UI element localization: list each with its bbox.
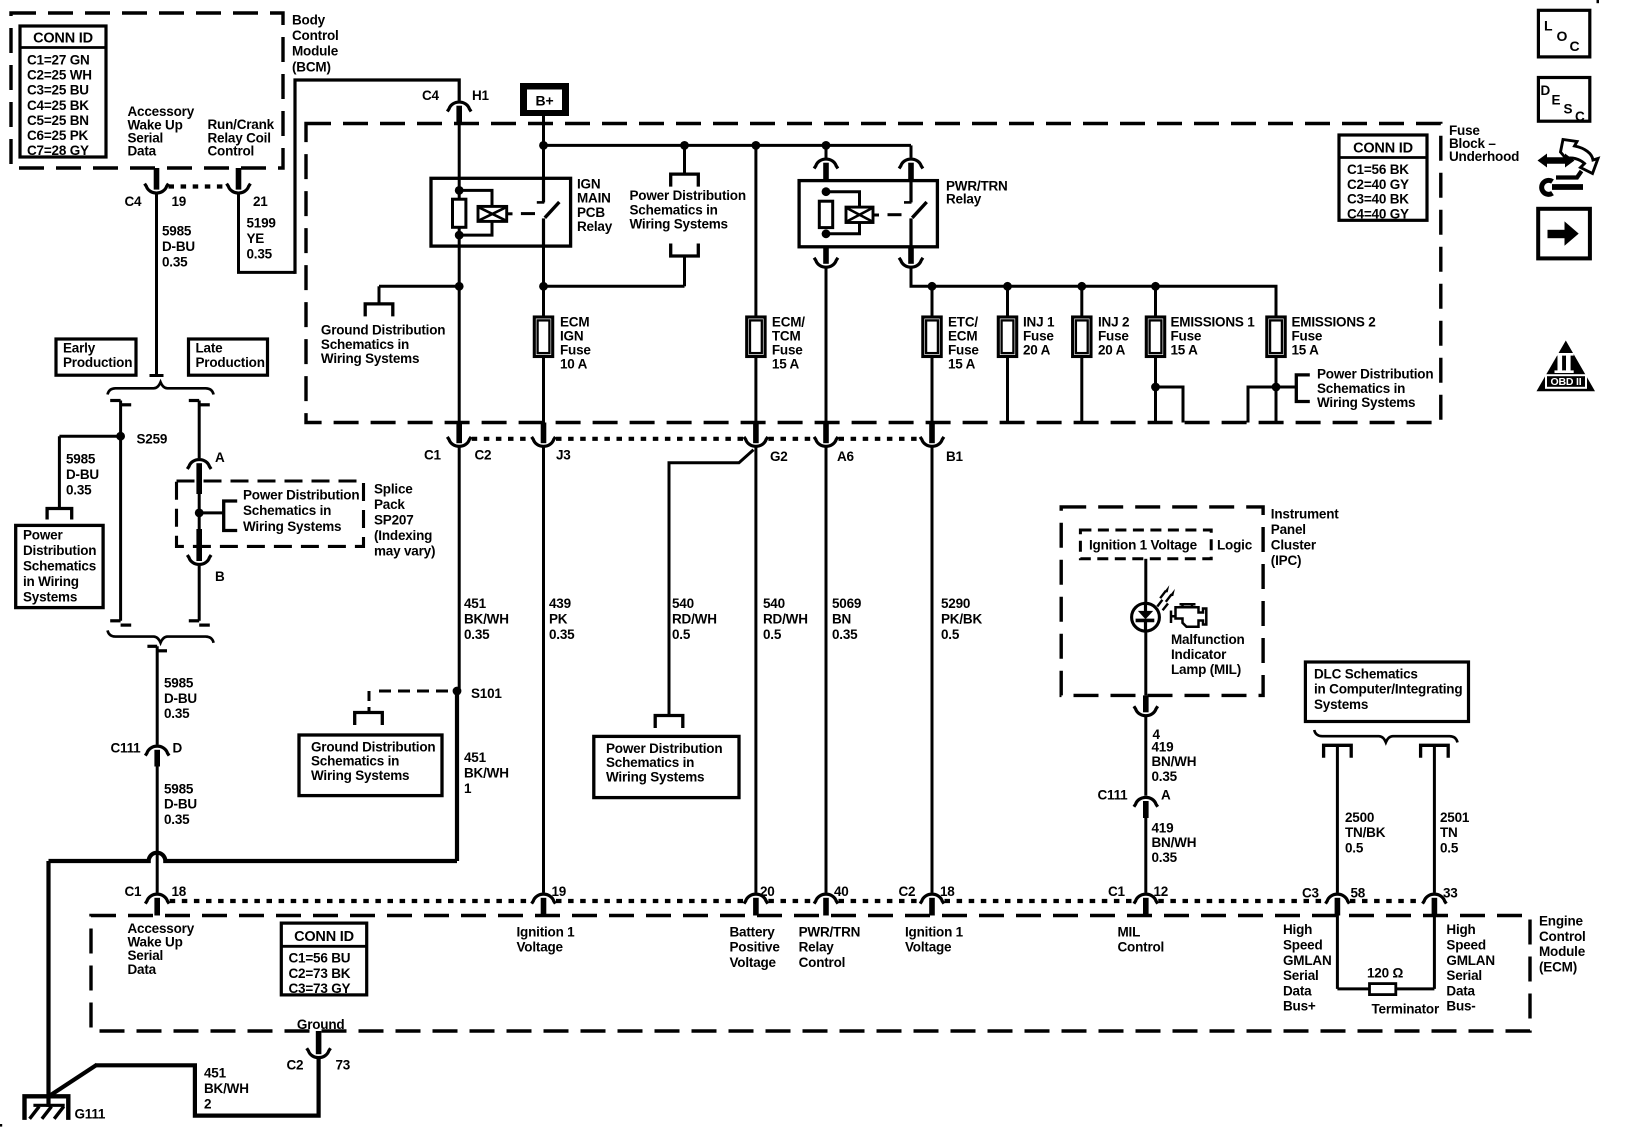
svg-text:J3: J3 (556, 448, 571, 463)
svg-text:Voltage: Voltage (905, 940, 952, 955)
svg-text:ECM: ECM (560, 315, 589, 330)
svg-text:Schematics in: Schematics in (243, 503, 331, 518)
svg-text:D-BU: D-BU (164, 797, 197, 812)
svg-text:Terminator: Terminator (1372, 1002, 1440, 1017)
svg-text:10 A: 10 A (560, 357, 588, 372)
svg-text:PCB: PCB (577, 205, 605, 220)
svg-text:5985: 5985 (66, 452, 96, 467)
svg-text:EMISSIONS 2: EMISSIONS 2 (1292, 315, 1376, 330)
svg-text:0.35: 0.35 (162, 254, 188, 269)
svg-text:0.5: 0.5 (1440, 841, 1459, 856)
svg-text:TN/BK: TN/BK (1345, 825, 1386, 840)
svg-text:CONN ID: CONN ID (1353, 141, 1413, 157)
svg-text:D: D (173, 741, 183, 756)
svg-text:C4=40 GY: C4=40 GY (1347, 206, 1409, 221)
svg-text:C2: C2 (287, 1058, 304, 1073)
svg-text:(Indexing: (Indexing (374, 528, 432, 543)
svg-text:40: 40 (834, 884, 849, 899)
svg-text:Module: Module (292, 44, 339, 59)
svg-text:Data: Data (128, 962, 157, 977)
svg-text:(IPC): (IPC) (1271, 553, 1302, 568)
svg-text:Schematics in: Schematics in (321, 337, 409, 352)
svg-text:0.5: 0.5 (1345, 841, 1364, 856)
svg-text:C1=27 GN: C1=27 GN (27, 52, 90, 67)
svg-text:0.35: 0.35 (164, 706, 190, 721)
svg-text:0.35: 0.35 (549, 627, 575, 642)
svg-text:Pack: Pack (374, 497, 405, 512)
svg-text:C3=25 BU: C3=25 BU (27, 83, 89, 98)
svg-text:B: B (215, 569, 225, 584)
svg-text:33: 33 (1443, 886, 1458, 901)
svg-text:Splice: Splice (374, 481, 413, 496)
svg-text:may vary): may vary) (374, 544, 435, 559)
svg-text:C1=56 BK: C1=56 BK (1347, 162, 1409, 177)
svg-text:C5=25 BN: C5=25 BN (27, 113, 89, 128)
svg-text:Wiring Systems: Wiring Systems (243, 519, 341, 534)
svg-text:ECM/: ECM/ (772, 315, 805, 330)
svg-text:Late: Late (196, 340, 224, 355)
svg-text:Relay: Relay (577, 219, 613, 234)
svg-text:C3=73 GY: C3=73 GY (289, 981, 351, 996)
svg-text:Production: Production (63, 355, 132, 370)
svg-text:BN/WH: BN/WH (1152, 835, 1197, 850)
svg-text:C3: C3 (1302, 886, 1320, 901)
svg-text:Data: Data (1283, 983, 1312, 998)
svg-text:15 A: 15 A (948, 357, 976, 372)
svg-text:BN: BN (832, 612, 851, 627)
svg-text:15 A: 15 A (1292, 343, 1320, 358)
svg-text:BK/WH: BK/WH (204, 1081, 249, 1096)
svg-text:A: A (1161, 788, 1171, 803)
svg-text:G111: G111 (75, 1107, 106, 1122)
svg-text:C6=25 PK: C6=25 PK (27, 128, 89, 143)
svg-text:2500: 2500 (1345, 810, 1374, 825)
svg-text:451: 451 (204, 1066, 227, 1081)
svg-text:5985: 5985 (164, 675, 194, 690)
svg-text:RD/WH: RD/WH (763, 612, 808, 627)
svg-text:IGN: IGN (577, 176, 600, 191)
svg-text:TN: TN (1440, 825, 1458, 840)
svg-text:Data: Data (128, 144, 157, 159)
svg-text:G2: G2 (770, 449, 788, 464)
svg-text:C1: C1 (424, 448, 442, 463)
svg-text:2501: 2501 (1440, 810, 1470, 825)
svg-text:C111: C111 (1098, 788, 1129, 803)
svg-text:Ground: Ground (297, 1017, 345, 1032)
svg-text:C4: C4 (125, 194, 143, 209)
svg-text:D-BU: D-BU (164, 691, 197, 706)
svg-text:S: S (1564, 102, 1573, 117)
svg-text:MAIN: MAIN (577, 191, 611, 206)
svg-text:Bus-: Bus- (1446, 999, 1475, 1014)
svg-text:A6: A6 (837, 449, 855, 464)
svg-text:Voltage: Voltage (517, 940, 564, 955)
svg-text:High: High (1446, 922, 1475, 937)
svg-text:C111: C111 (111, 741, 142, 756)
svg-text:0.5: 0.5 (763, 627, 782, 642)
svg-text:19: 19 (172, 194, 187, 209)
svg-text:451: 451 (464, 750, 487, 765)
svg-text:(ECM): (ECM) (1539, 960, 1577, 975)
svg-text:A: A (215, 450, 225, 465)
svg-text:in Wiring: in Wiring (23, 574, 79, 589)
svg-text:Battery: Battery (730, 924, 776, 939)
svg-text:12: 12 (1154, 884, 1169, 899)
svg-text:0.35: 0.35 (247, 246, 273, 261)
svg-text:Ground Distribution: Ground Distribution (311, 739, 435, 754)
svg-text:Power Distribution: Power Distribution (606, 741, 722, 756)
svg-text:Module: Module (1539, 944, 1586, 959)
svg-text:BN/WH: BN/WH (1152, 754, 1197, 769)
svg-text:INJ 2: INJ 2 (1098, 315, 1129, 330)
svg-text:C2=73 BK: C2=73 BK (289, 966, 351, 981)
svg-text:(BCM): (BCM) (292, 59, 331, 74)
svg-text:Underhood: Underhood (1449, 149, 1519, 164)
svg-text:451: 451 (464, 596, 487, 611)
svg-text:S259: S259 (137, 432, 168, 447)
svg-text:Power Distribution: Power Distribution (243, 488, 359, 503)
svg-text:0.35: 0.35 (464, 627, 490, 642)
svg-text:C: C (1570, 38, 1580, 54)
svg-text:Fuse: Fuse (1292, 329, 1323, 344)
svg-text:0.5: 0.5 (941, 627, 960, 642)
svg-text:Logic: Logic (1217, 538, 1253, 553)
svg-text:GMLAN: GMLAN (1446, 953, 1495, 968)
svg-text:5985: 5985 (164, 781, 194, 796)
svg-text:0.35: 0.35 (1152, 769, 1178, 784)
svg-text:15 A: 15 A (772, 357, 800, 372)
svg-text:GMLAN: GMLAN (1283, 953, 1332, 968)
svg-text:High: High (1283, 922, 1312, 937)
svg-text:0.35: 0.35 (832, 627, 858, 642)
svg-text:18: 18 (172, 884, 187, 899)
svg-text:Relay: Relay (799, 940, 835, 955)
svg-text:BK/WH: BK/WH (464, 612, 509, 627)
svg-text:Engine: Engine (1539, 913, 1583, 928)
svg-text:Fuse: Fuse (1098, 329, 1129, 344)
svg-text:PWR/TRN: PWR/TRN (799, 924, 861, 939)
svg-text:20: 20 (760, 884, 775, 899)
svg-text:Lamp (MIL): Lamp (MIL) (1171, 662, 1241, 677)
svg-text:58: 58 (1351, 886, 1366, 901)
svg-text:Relay: Relay (946, 192, 982, 207)
svg-text:Instrument: Instrument (1271, 507, 1339, 522)
svg-text:Distribution: Distribution (23, 543, 96, 558)
svg-text:Fuse: Fuse (1023, 329, 1054, 344)
svg-text:CONN ID: CONN ID (33, 31, 93, 47)
svg-text:C2: C2 (475, 448, 492, 463)
svg-text:Ignition 1: Ignition 1 (905, 924, 964, 939)
svg-text:C7=28 GY: C7=28 GY (27, 143, 89, 158)
svg-text:0.35: 0.35 (66, 483, 92, 498)
svg-text:C3=40 BK: C3=40 BK (1347, 192, 1409, 207)
svg-text:Power Distribution: Power Distribution (1317, 367, 1433, 382)
svg-text:L: L (1544, 18, 1553, 34)
svg-text:C4=25 BK: C4=25 BK (27, 98, 89, 113)
svg-text:D: D (1541, 83, 1551, 98)
svg-text:D-BU: D-BU (66, 467, 99, 482)
svg-text:ECM: ECM (948, 329, 977, 344)
svg-text:Serial: Serial (1283, 968, 1319, 983)
svg-text:Speed: Speed (1283, 938, 1323, 953)
svg-text:Wiring Systems: Wiring Systems (321, 351, 419, 366)
svg-text:BK/WH: BK/WH (464, 765, 509, 780)
svg-text:0.35: 0.35 (164, 812, 190, 827)
svg-text:Schematics in: Schematics in (606, 755, 694, 770)
svg-text:C2=40 GY: C2=40 GY (1347, 177, 1409, 192)
svg-text:0.5: 0.5 (672, 627, 691, 642)
svg-text:120 Ω: 120 Ω (1367, 966, 1403, 981)
svg-text:5985: 5985 (162, 224, 192, 239)
svg-text:D-BU: D-BU (162, 239, 195, 254)
svg-text:B1: B1 (946, 449, 964, 464)
svg-text:15 A: 15 A (1171, 343, 1199, 358)
svg-text:Control: Control (1539, 929, 1586, 944)
svg-text:Systems: Systems (23, 590, 77, 605)
svg-text:Schematics: Schematics (23, 559, 96, 574)
svg-text:TCM: TCM (772, 329, 801, 344)
svg-text:Indicator: Indicator (1171, 647, 1227, 662)
svg-text:Body: Body (292, 12, 326, 27)
svg-text:Schematics in: Schematics in (630, 202, 718, 217)
svg-text:PK/BK: PK/BK (941, 612, 982, 627)
svg-text:S101: S101 (471, 686, 502, 701)
svg-text:Control: Control (799, 955, 846, 970)
svg-text:20 A: 20 A (1023, 343, 1051, 358)
svg-text:Production: Production (196, 355, 265, 370)
svg-text:Wiring Systems: Wiring Systems (630, 217, 728, 232)
svg-text:YE: YE (247, 231, 265, 246)
svg-text:OBD II: OBD II (1551, 376, 1582, 388)
svg-text:Fuse: Fuse (1171, 329, 1202, 344)
svg-text:419: 419 (1152, 739, 1174, 754)
svg-text:Serial: Serial (1446, 968, 1482, 983)
svg-text:H1: H1 (472, 88, 490, 103)
svg-text:Fuse: Fuse (948, 343, 979, 358)
svg-text:C1=56 BU: C1=56 BU (289, 951, 351, 966)
svg-text:Control: Control (1118, 940, 1165, 955)
svg-text:INJ 1: INJ 1 (1023, 315, 1055, 330)
svg-text:Voltage: Voltage (730, 955, 777, 970)
svg-text:Wiring Systems: Wiring Systems (311, 768, 409, 783)
svg-text:Power: Power (23, 527, 63, 542)
svg-text:Positive: Positive (730, 940, 781, 955)
svg-text:C: C (1575, 109, 1585, 124)
svg-text:C2=25 WH: C2=25 WH (27, 67, 92, 82)
svg-text:5290: 5290 (941, 596, 970, 611)
svg-text:DLC Schematics: DLC Schematics (1314, 667, 1418, 682)
svg-text:439: 439 (549, 596, 571, 611)
svg-text:21: 21 (253, 194, 268, 209)
svg-text:Power Distribution: Power Distribution (630, 188, 746, 203)
svg-text:Wiring Systems: Wiring Systems (606, 769, 704, 784)
svg-text:E: E (1552, 93, 1561, 108)
svg-text:RD/WH: RD/WH (672, 612, 717, 627)
svg-text:C2: C2 (899, 884, 916, 899)
svg-text:Data: Data (1446, 983, 1475, 998)
svg-text:PK: PK (549, 612, 568, 627)
svg-text:MIL: MIL (1118, 924, 1141, 939)
svg-text:20 A: 20 A (1098, 343, 1126, 358)
svg-text:73: 73 (336, 1058, 351, 1073)
svg-text:Speed: Speed (1446, 938, 1486, 953)
svg-text:Systems: Systems (1314, 697, 1368, 712)
svg-text:Control: Control (208, 144, 255, 159)
svg-text:419: 419 (1152, 820, 1174, 835)
svg-text:5069: 5069 (832, 596, 861, 611)
svg-text:ETC/: ETC/ (948, 315, 978, 330)
svg-text:540: 540 (763, 596, 785, 611)
svg-text:19: 19 (552, 884, 567, 899)
svg-text:Schematics in: Schematics in (311, 754, 399, 769)
svg-text:Schematics in: Schematics in (1317, 381, 1405, 396)
svg-text:C1: C1 (1108, 884, 1126, 899)
svg-text:Control: Control (292, 28, 339, 43)
svg-text:Bus+: Bus+ (1283, 999, 1316, 1014)
svg-text:Malfunction: Malfunction (1171, 632, 1245, 647)
svg-text:540: 540 (672, 596, 694, 611)
svg-text:Ignition 1 Voltage: Ignition 1 Voltage (1089, 538, 1198, 553)
svg-text:1: 1 (464, 781, 472, 796)
svg-text:B+: B+ (536, 92, 554, 108)
svg-text:O: O (1557, 28, 1568, 44)
svg-text:C1: C1 (125, 884, 143, 899)
svg-text:CONN ID: CONN ID (294, 929, 354, 945)
svg-text:Cluster: Cluster (1271, 538, 1317, 553)
svg-text:C4: C4 (422, 88, 440, 103)
svg-text:Fuse: Fuse (772, 343, 803, 358)
svg-text:EMISSIONS 1: EMISSIONS 1 (1171, 315, 1256, 330)
svg-text:5199: 5199 (247, 216, 276, 231)
svg-text:in Computer/Integrating: in Computer/Integrating (1314, 682, 1462, 697)
svg-text:Early: Early (63, 340, 96, 355)
svg-text:Fuse: Fuse (560, 343, 591, 358)
svg-text:18: 18 (940, 884, 955, 899)
svg-text:SP207: SP207 (374, 513, 414, 528)
svg-text:IGN: IGN (560, 329, 583, 344)
svg-text:Ground Distribution: Ground Distribution (321, 323, 445, 338)
svg-text:0.35: 0.35 (1152, 850, 1178, 865)
svg-text:Wiring Systems: Wiring Systems (1317, 395, 1415, 410)
svg-text:Panel: Panel (1271, 522, 1306, 537)
svg-text:2: 2 (204, 1097, 211, 1112)
svg-text:Ignition 1: Ignition 1 (517, 924, 576, 939)
